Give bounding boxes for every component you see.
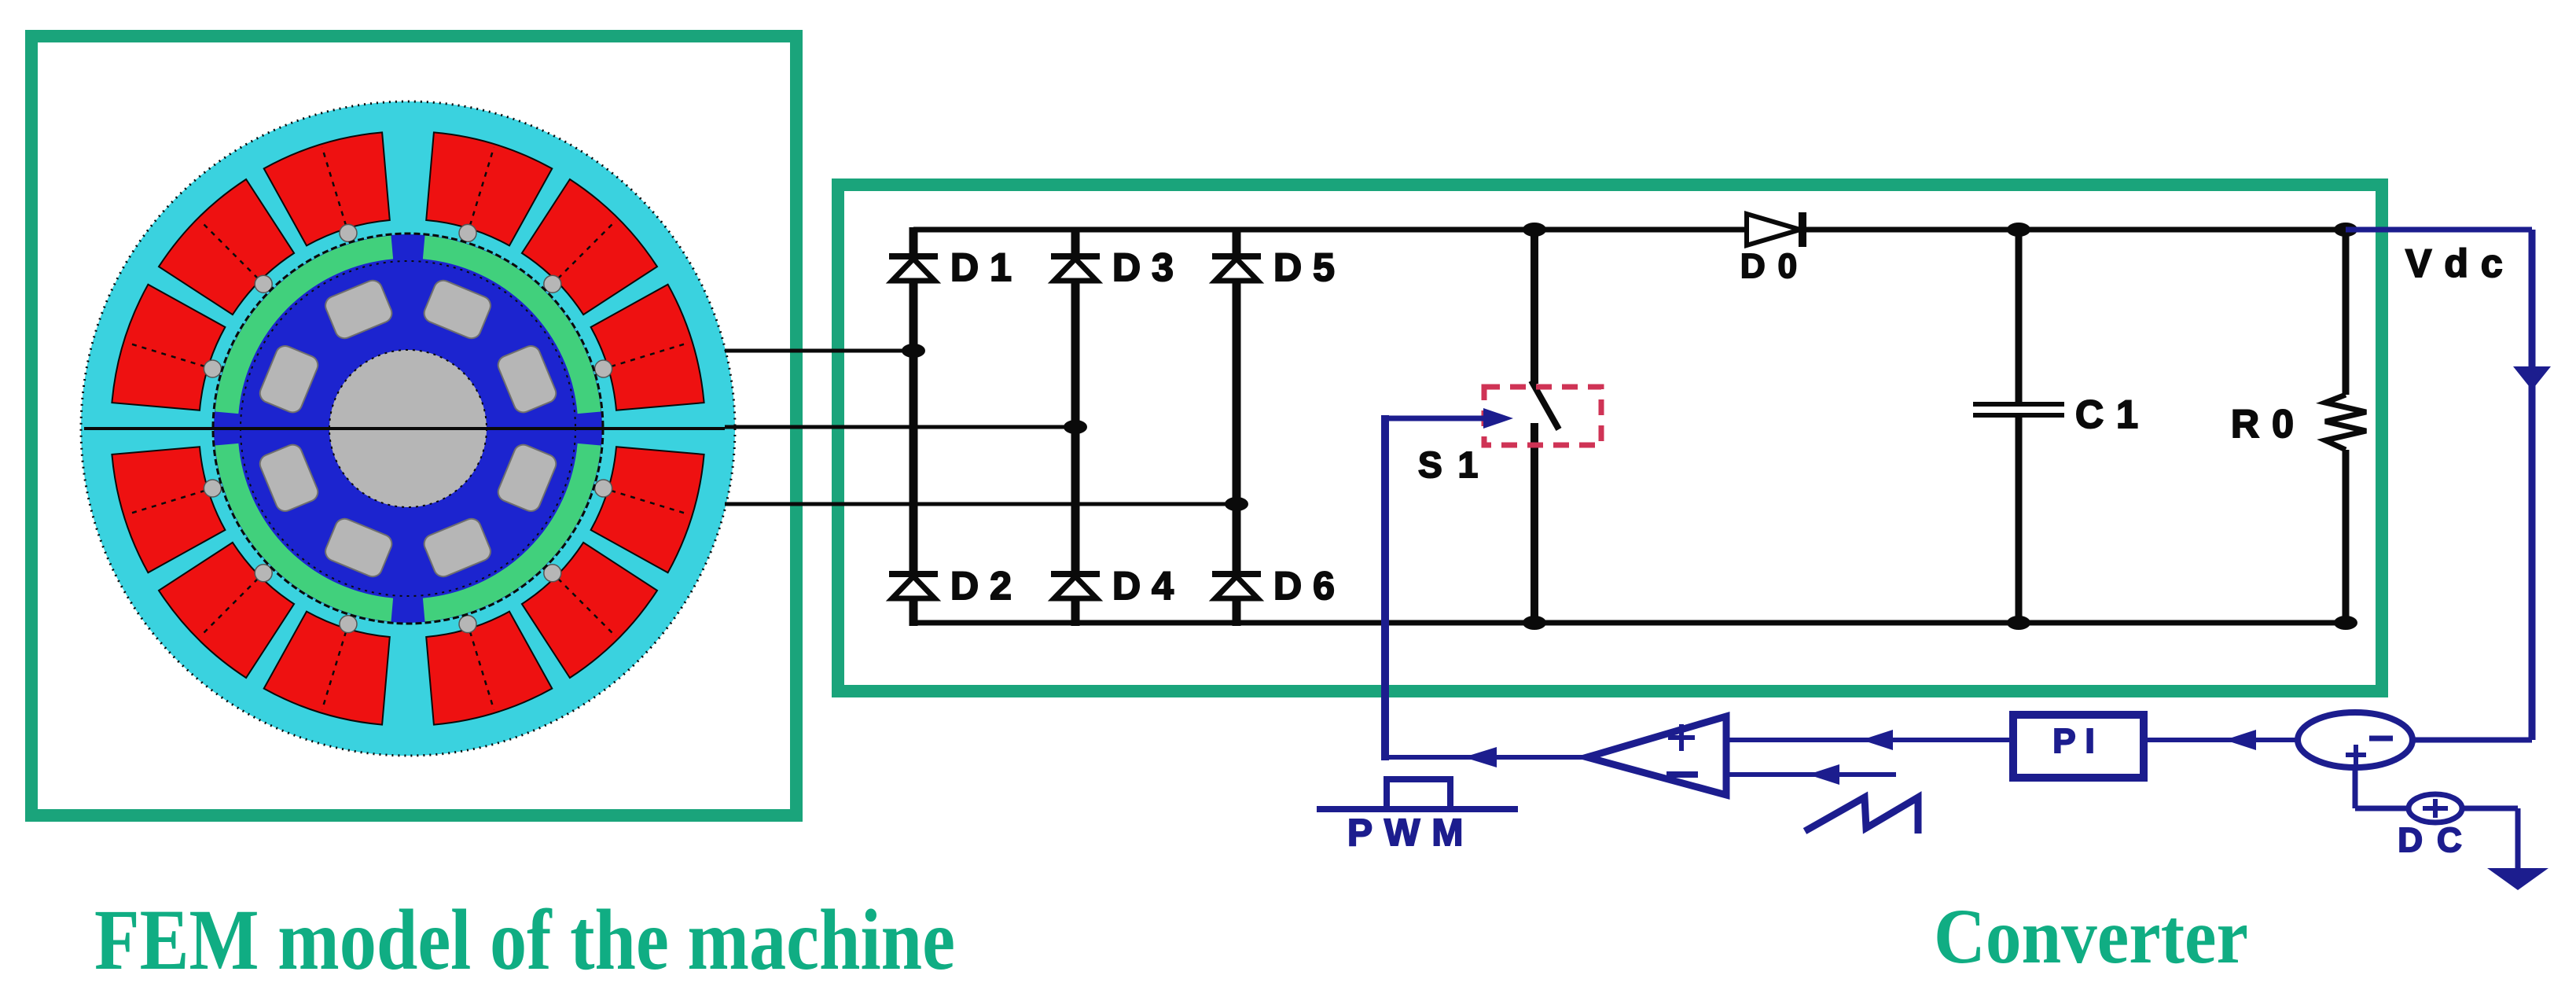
svg-text:Converter: Converter: [1934, 892, 2248, 980]
svg-text:DC: DC: [2398, 821, 2476, 859]
svg-text:Vdc: Vdc: [2405, 241, 2515, 285]
svg-text:PI: PI: [2052, 722, 2104, 760]
svg-text:PWM: PWM: [1347, 812, 1475, 854]
svg-text:FEM model of the machine: FEM model of the machine: [94, 892, 955, 988]
svg-text:D3: D3: [1112, 245, 1185, 289]
svg-text:C1: C1: [2075, 392, 2151, 436]
svg-text:D5: D5: [1273, 245, 1346, 289]
svg-text:D4: D4: [1112, 564, 1185, 608]
svg-text:D2: D2: [950, 564, 1023, 608]
svg-text:D1: D1: [950, 245, 1023, 289]
svg-text:R0: R0: [2231, 402, 2306, 446]
svg-text:D0: D0: [1740, 247, 1810, 285]
svg-text:S1: S1: [1418, 444, 1494, 485]
svg-text:D6: D6: [1273, 564, 1346, 608]
